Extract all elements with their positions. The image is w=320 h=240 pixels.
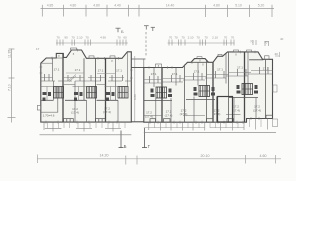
right block wc fixtures 1 bbox=[151, 89, 173, 98]
svg-text:(17.4): (17.4) bbox=[103, 110, 111, 114]
right block lighter division walls bbox=[185, 52, 266, 122]
svg-text:17.1: 17.1 bbox=[172, 72, 178, 76]
left vertical dimension line bbox=[8, 49, 16, 123]
right block wc fixtures 3 bbox=[237, 85, 259, 94]
svg-text:70: 70 bbox=[264, 41, 268, 45]
right block interior horizontals bbox=[144, 60, 273, 116]
right block stairs 1 bbox=[156, 87, 167, 98]
svg-text:Б: Б bbox=[124, 144, 127, 149]
svg-text:17.1: 17.1 bbox=[217, 68, 223, 72]
right block outer wall outline bbox=[144, 52, 273, 122]
right block window rects upper bbox=[218, 54, 269, 59]
right block terrace bbox=[144, 119, 276, 133]
svg-text:(17.4): (17.4) bbox=[71, 111, 79, 115]
right block bay A base wall bbox=[191, 61, 209, 63]
left block entry box unit2 bbox=[64, 119, 74, 123]
right block interior verticals bbox=[150, 52, 269, 122]
svg-text:11.35: 11.35 bbox=[8, 50, 12, 58]
svg-text:17.1: 17.1 bbox=[237, 66, 243, 70]
svg-text:17.1: 17.1 bbox=[194, 70, 200, 74]
right block right-side balcony bbox=[273, 85, 277, 92]
left block wc partition lines bbox=[41, 87, 118, 101]
section arrow G bottom bbox=[142, 128, 147, 148]
svg-text:70: 70 bbox=[181, 36, 185, 40]
right block corridor lines bbox=[144, 71, 273, 80]
right block left upper edge bbox=[143, 59, 145, 68]
svg-text:7.10: 7.10 bbox=[8, 84, 12, 91]
svg-text:70: 70 bbox=[204, 36, 208, 40]
right block bay labels bbox=[158, 53, 238, 68]
svg-text:70: 70 bbox=[117, 36, 121, 40]
middle gap top connector bbox=[131, 58, 145, 60]
svg-text:14.20: 14.20 bbox=[100, 154, 109, 158]
left block right-end partition bbox=[127, 52, 129, 87]
svg-text:2.10: 2.10 bbox=[188, 36, 194, 40]
section arrow B bottom bbox=[119, 131, 124, 149]
svg-text:4.90: 4.90 bbox=[100, 36, 106, 40]
right block bay caps bbox=[197, 50, 252, 59]
left block wc fixtures 1 bbox=[43, 92, 52, 101]
left block upper room partials bbox=[66, 72, 115, 75]
left block terrace fence ticks bbox=[48, 122, 126, 128]
left block stairs 2 bbox=[87, 87, 97, 99]
section B top mark bbox=[116, 28, 121, 32]
middle gap bottom connector bbox=[131, 121, 144, 123]
svg-text:(17.4): (17.4) bbox=[165, 113, 173, 117]
left vertical dimension labels bbox=[8, 50, 12, 91]
top dimension labels bbox=[47, 4, 265, 8]
left block bottom wall window ticks bbox=[46, 121, 117, 124]
section line top marks bbox=[144, 26, 155, 31]
svg-text:70: 70 bbox=[169, 36, 173, 40]
svg-text:70: 70 bbox=[71, 36, 75, 40]
right block stairs 2 bbox=[199, 86, 210, 97]
svg-text:60: 60 bbox=[123, 36, 127, 40]
svg-text:(17.4): (17.4) bbox=[145, 114, 153, 118]
left block interior horizontals bbox=[41, 63, 132, 112]
svg-text:2.10: 2.10 bbox=[77, 36, 83, 40]
svg-text:17.1: 17.1 bbox=[75, 68, 81, 72]
bottom dimension line bbox=[37, 155, 281, 165]
right block window ticks bbox=[149, 51, 255, 69]
svg-text:2.10: 2.10 bbox=[212, 36, 218, 40]
svg-text:4.80: 4.80 bbox=[213, 4, 220, 8]
left block terrace bbox=[40, 122, 132, 135]
right block stairs 3 bbox=[242, 84, 253, 95]
svg-text:4.40: 4.40 bbox=[114, 4, 121, 8]
svg-text:90: 90 bbox=[64, 36, 68, 40]
svg-text:(17.4): (17.4) bbox=[253, 108, 261, 112]
left block wc fixtures 2 bbox=[74, 92, 83, 101]
svg-text:17: 17 bbox=[36, 47, 40, 51]
svg-text:70: 70 bbox=[224, 36, 228, 40]
svg-text:70: 70 bbox=[85, 36, 89, 40]
middle gap line bbox=[134, 56, 136, 122]
svg-text:70: 70 bbox=[56, 36, 60, 40]
right block secondary dimension line bbox=[168, 40, 235, 46]
svg-text:9.00: 9.00 bbox=[133, 94, 137, 100]
svg-text:17.1: 17.1 bbox=[98, 69, 104, 73]
svg-text:17.1: 17.1 bbox=[54, 68, 60, 72]
section line dashed bbox=[145, 32, 147, 56]
middle gap connector wall bbox=[132, 67, 144, 69]
right block extra dim marks far right bbox=[250, 40, 268, 45]
svg-text:40: 40 bbox=[275, 52, 279, 56]
svg-text:17.1: 17.1 bbox=[263, 67, 269, 71]
svg-text:4.60: 4.60 bbox=[260, 154, 267, 158]
left block unit2 stair diagonal bbox=[69, 75, 76, 82]
svg-text:1.70×4.6: 1.70×4.6 bbox=[43, 114, 55, 118]
right block bottom wall window ticks bbox=[150, 117, 259, 124]
left block party wall 2 bbox=[105, 58, 107, 122]
svg-text:17.1: 17.1 bbox=[116, 69, 122, 73]
bottom dimension labels bbox=[100, 154, 267, 158]
left block stairs 3 bbox=[118, 87, 128, 99]
svg-text:17.1: 17.1 bbox=[151, 72, 157, 76]
left block secondary dimension labels bbox=[56, 36, 127, 40]
right block room labels top bbox=[151, 66, 269, 77]
left block outer wall outline bbox=[41, 50, 132, 122]
left block corridor line bbox=[41, 76, 124, 78]
right block entry boxes bbox=[164, 115, 273, 122]
svg-text:(17.4): (17.4) bbox=[213, 112, 221, 116]
svg-text:4.80: 4.80 bbox=[93, 4, 100, 8]
left block entry box unit3 bbox=[96, 119, 106, 123]
left block porch bbox=[37, 106, 41, 111]
right block room labels bottom bbox=[145, 105, 261, 119]
svg-text:Б: Б bbox=[121, 29, 124, 34]
svg-text:20.10: 20.10 bbox=[201, 154, 210, 158]
svg-text:5.10: 5.10 bbox=[235, 4, 242, 8]
right block highlighted unit outline bbox=[218, 97, 233, 123]
svg-text:70: 70 bbox=[196, 36, 200, 40]
svg-text:4.80: 4.80 bbox=[70, 4, 77, 8]
left block window rects on top wall bbox=[89, 56, 115, 58]
right block top-right label bbox=[275, 52, 279, 56]
left block room labels top bbox=[54, 68, 123, 73]
left block wc fixtures 3 bbox=[106, 92, 115, 101]
svg-text:40: 40 bbox=[280, 37, 284, 41]
right block entry near gap bbox=[150, 119, 156, 123]
svg-text:14.40: 14.40 bbox=[166, 4, 175, 8]
svg-text:4.85: 4.85 bbox=[47, 4, 54, 8]
left block bay1 inner line bbox=[56, 57, 62, 59]
left block party wall 1 bbox=[62, 53, 64, 122]
right block right-side step bbox=[273, 119, 278, 127]
left block stairs 1 bbox=[54, 87, 64, 99]
right block wc fixtures 2 bbox=[194, 87, 216, 96]
svg-text:5.20: 5.20 bbox=[258, 4, 265, 8]
right block party walls bbox=[162, 52, 245, 122]
right block terrace fence ticks bbox=[144, 119, 261, 129]
top dimension line bbox=[41, 5, 275, 17]
svg-text:70: 70 bbox=[174, 36, 178, 40]
left block interior verticals bbox=[45, 58, 123, 122]
right block bay unit1 rect bbox=[156, 64, 162, 68]
right block secondary dimension labels bbox=[169, 36, 235, 40]
svg-text:(17.4): (17.4) bbox=[232, 108, 240, 112]
svg-text:70: 70 bbox=[231, 36, 235, 40]
svg-text:(17.4): (17.4) bbox=[180, 112, 188, 116]
left block secondary dimension line bbox=[56, 40, 128, 46]
left block bay labels bbox=[58, 52, 113, 63]
left block room labels bottom bbox=[43, 107, 111, 118]
left block window ticks bbox=[40, 49, 133, 78]
left block bay2 cap rect bbox=[71, 48, 77, 50]
